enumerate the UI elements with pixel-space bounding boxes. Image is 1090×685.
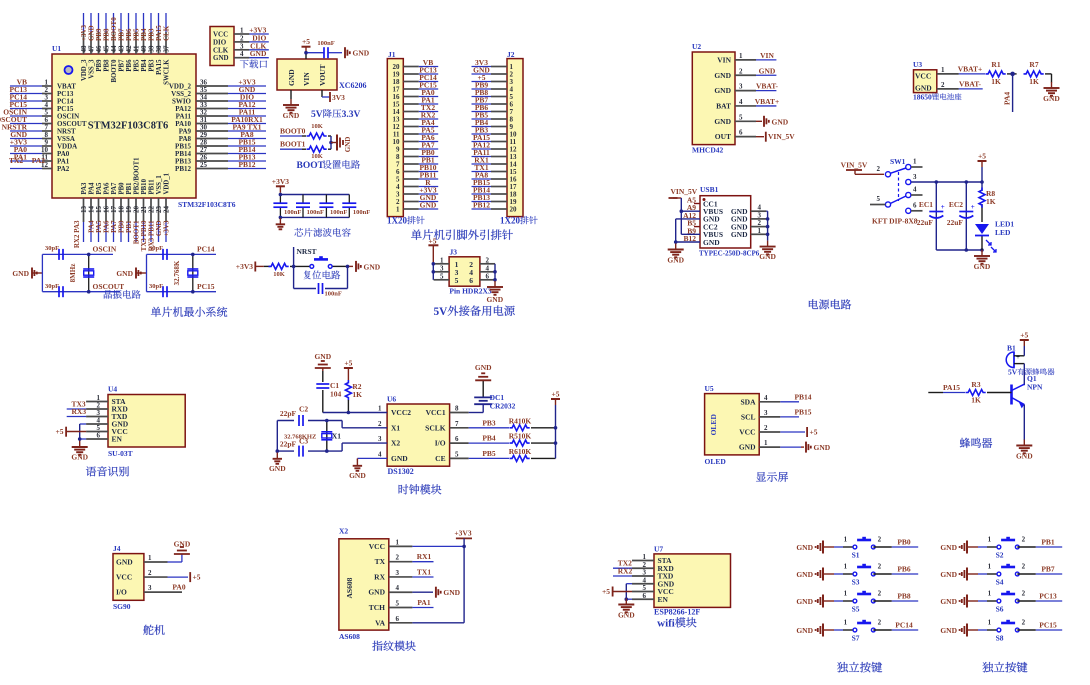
svg-text:2: 2 <box>878 563 882 571</box>
svg-text:1: 1 <box>739 52 743 60</box>
svg-text:PB0: PB0 <box>897 538 911 547</box>
wire: BOOT0 resistor to junction <box>328 135 331 137</box>
svg-text:VIN_5V: VIN_5V <box>841 161 868 170</box>
J2 pins 1-20 stubs, numbers and net labels <box>472 58 518 214</box>
svg-text:5V: 5V <box>434 306 449 318</box>
svg-text:+5: +5 <box>428 237 436 246</box>
svg-text:6: 6 <box>913 202 917 210</box>
U5 pins 4-1 stubs numbers names <box>739 394 780 452</box>
svg-text:S5: S5 <box>852 605 860 614</box>
ground flag right of reset button <box>355 261 357 272</box>
svg-text:2: 2 <box>1022 536 1026 544</box>
svg-text:GND: GND <box>940 543 957 552</box>
junction dots filter rails <box>279 193 283 197</box>
wire: GND pin to flag <box>780 446 801 448</box>
ground flag for button S4 <box>966 568 968 581</box>
junction dots left crystal <box>87 253 91 257</box>
title dianyuan dianlu (power circuit) <box>809 299 818 309</box>
svg-text:PA15: PA15 <box>156 59 163 75</box>
svg-text:C2: C2 <box>299 405 308 414</box>
svg-text:STM32F103C8T6: STM32F103C8T6 <box>178 200 236 209</box>
wire: R2 to VCC2 rail <box>347 374 349 380</box>
capacitor C4 100nF <box>273 202 287 204</box>
svg-text:RX2: RX2 <box>618 567 633 576</box>
svg-text:PB1: PB1 <box>1041 538 1055 547</box>
svg-text:J3: J3 <box>450 248 458 257</box>
svg-text:PC15: PC15 <box>197 282 215 291</box>
svg-text:4: 4 <box>486 264 490 272</box>
junction dots cap rail <box>935 180 939 184</box>
svg-text:GND: GND <box>420 201 437 210</box>
svg-text:PC15: PC15 <box>1039 621 1057 630</box>
svg-text:CR2032: CR2032 <box>490 402 516 411</box>
svg-text:4: 4 <box>739 98 743 106</box>
svg-text:+5: +5 <box>551 390 559 399</box>
svg-text:R7: R7 <box>1029 60 1038 69</box>
wire: USB1 left GND pins to ground <box>676 219 700 244</box>
capacitor 100nF at regulator input <box>323 47 325 58</box>
svg-text:PB3: PB3 <box>482 418 496 427</box>
svg-text:104: 104 <box>330 390 342 399</box>
svg-text:VCC: VCC <box>116 573 132 582</box>
svg-text:2: 2 <box>1022 619 1026 627</box>
svg-text:2: 2 <box>878 536 882 544</box>
USB1 right pin names GND x4 and numbers 4-1 <box>731 204 766 239</box>
svg-text:1: 1 <box>440 256 444 264</box>
svg-text:BOOT1: BOOT1 <box>280 140 306 149</box>
svg-text:PB14: PB14 <box>794 392 811 401</box>
svg-text:+5: +5 <box>193 573 201 582</box>
svg-text:8MHz: 8MHz <box>69 264 77 283</box>
svg-text:RX2 PA3: RX2 PA3 <box>73 220 81 248</box>
svg-text:GND: GND <box>116 269 133 278</box>
svg-text:S4: S4 <box>996 578 1004 587</box>
title duoji (servo) <box>143 625 153 635</box>
svg-text:32.768K: 32.768K <box>173 260 181 285</box>
svg-text:B1: B1 <box>1007 344 1016 353</box>
svg-text:3: 3 <box>764 409 768 417</box>
ground symbol right of R7 <box>1051 82 1053 88</box>
ground flag for button S6 <box>966 595 968 608</box>
svg-text:VDD_1: VDD_1 <box>164 172 171 194</box>
svg-text:VCC2: VCC2 <box>391 408 411 417</box>
svg-text:100nF: 100nF <box>330 209 347 216</box>
capacitor 30pF top-left <box>58 249 60 260</box>
ground flag for button S3 <box>822 568 824 581</box>
ground flag for button S2 <box>966 541 968 554</box>
svg-text:22pF: 22pF <box>280 440 297 449</box>
junction dot BOOT divider <box>329 141 333 145</box>
svg-text:GND: GND <box>714 71 731 80</box>
svg-text:GND: GND <box>974 262 991 271</box>
wire: GND to C1 to VCC2 rail <box>323 371 387 413</box>
svg-text:4: 4 <box>764 394 768 402</box>
svg-text:6: 6 <box>396 615 400 623</box>
svg-text:PB8: PB8 <box>897 592 911 601</box>
svg-text:GND: GND <box>940 597 957 606</box>
diode LED1 <box>975 224 989 234</box>
svg-text:GND: GND <box>1016 452 1033 461</box>
wire: button S3 to net label PB6 <box>873 573 892 575</box>
U4 pins 1-6 stubs numbers names <box>86 394 129 444</box>
svg-text:VA: VA <box>375 618 385 627</box>
svg-text:37: 37 <box>163 45 171 53</box>
svg-text:30pF: 30pF <box>45 283 59 290</box>
wire: U2 pin5 to ground flag <box>756 120 762 122</box>
junction dot left GND rail <box>674 240 678 244</box>
power +5 above buzzer <box>1023 340 1025 346</box>
svg-text:8: 8 <box>455 405 459 413</box>
power +5 above pull-up rail <box>555 399 557 405</box>
svg-text:1: 1 <box>844 590 848 598</box>
svg-text:CLK: CLK <box>213 46 229 54</box>
svg-text:100nF: 100nF <box>284 209 301 216</box>
title danpianji zuixiao xitong (MCU minimal system) <box>151 307 161 317</box>
push button S6 <box>997 599 1001 603</box>
svg-text:PA1: PA1 <box>417 598 430 607</box>
svg-text:BOOT0: BOOT0 <box>111 59 118 83</box>
svg-text:VCC1: VCC1 <box>426 408 446 417</box>
svg-text:U4: U4 <box>108 385 117 394</box>
svg-text:1K: 1K <box>1029 77 1039 86</box>
chip U1 STM32F103C8T6 body <box>52 54 196 198</box>
svg-text:PB12: PB12 <box>175 165 191 173</box>
svg-text:2: 2 <box>1022 563 1026 571</box>
svg-text:1K: 1K <box>991 77 1001 86</box>
svg-text:PB12: PB12 <box>238 160 255 169</box>
ground symbol below filter caps <box>279 218 281 224</box>
svg-text:32.768KHZ: 32.768KHZ <box>284 434 316 441</box>
wire: right crystal GND net <box>136 254 216 291</box>
wire: ground to button S4 <box>967 573 978 575</box>
wire: U2 pin6 to VIN_5V <box>756 136 764 138</box>
junction dots right crystal <box>191 253 195 257</box>
title duli anjian right (independent buttons) <box>982 662 993 672</box>
svg-text:XC6206: XC6206 <box>339 81 367 90</box>
svg-text:+5: +5 <box>302 37 310 46</box>
ground flag right crystal <box>135 268 137 279</box>
U1 top pins 48-37 with stubs, numbers, names and net labels <box>80 13 171 85</box>
svg-text:GND: GND <box>739 443 756 452</box>
wire: button S4 to net label PB7 <box>1017 573 1036 575</box>
svg-text:3: 3 <box>396 569 400 577</box>
svg-text:GND: GND <box>714 86 731 95</box>
svg-text:TX1: TX1 <box>417 568 431 577</box>
J3 inside pin numbers 1-6 <box>455 260 474 285</box>
svg-text:PB15: PB15 <box>794 407 811 416</box>
svg-text:GND: GND <box>12 269 29 278</box>
svg-text:3: 3 <box>739 83 743 91</box>
title fuwei dianlu (reset circuit) <box>304 271 311 280</box>
ground flag for button S5 <box>822 595 824 608</box>
power +3V3 symbol above filter caps <box>279 186 281 192</box>
svg-text:2: 2 <box>1022 590 1026 598</box>
svg-text:GND: GND <box>344 137 352 153</box>
svg-text:VDD_3: VDD_3 <box>81 59 88 81</box>
resistor R2 1K vertical <box>345 380 351 400</box>
svg-text:5V: 5V <box>1008 368 1018 377</box>
svg-text:6: 6 <box>455 435 459 443</box>
svg-text:30pF: 30pF <box>45 245 59 252</box>
svg-text:GND: GND <box>915 84 932 93</box>
svg-text:25: 25 <box>200 161 208 169</box>
power +5 inline at J4 <box>189 572 191 582</box>
svg-text:NRST: NRST <box>297 247 317 256</box>
junction dots reset node <box>292 265 296 269</box>
resistor R3 1K <box>966 390 986 396</box>
svg-text:1: 1 <box>988 536 992 544</box>
ground flag at X2 GND <box>435 587 437 598</box>
svg-text:PB8: PB8 <box>104 59 111 72</box>
svg-text:VCC: VCC <box>369 542 385 551</box>
push button S8 <box>997 628 1001 632</box>
svg-text:+: + <box>941 203 945 211</box>
node TX1 label at X2 RX <box>412 576 433 578</box>
svg-text:OLED: OLED <box>709 414 718 436</box>
svg-text:GND: GND <box>486 295 503 304</box>
SW1 pin number labels <box>877 158 918 210</box>
svg-text:SG90: SG90 <box>113 602 131 611</box>
wire: ground to button S6 <box>967 600 978 602</box>
svg-text:PB3: PB3 <box>149 59 156 72</box>
svg-text:+3V3: +3V3 <box>272 177 289 186</box>
capacitor EC1 22uF electrolytic <box>929 211 943 213</box>
capacitor 30pF top-right <box>162 249 164 260</box>
J4 pins 1-3 stubs numbers names <box>116 554 168 597</box>
ground symbol below USB1 left <box>675 244 677 250</box>
resistor R10 10K BOOT1 <box>307 146 327 152</box>
svg-text:VCC: VCC <box>739 428 755 437</box>
svg-text:+3V3: +3V3 <box>236 262 253 271</box>
title zhiwen mokuai (fingerprint module) <box>372 641 382 651</box>
wire: left crystal GND net <box>32 254 120 291</box>
wire: X2 GND to flag <box>412 591 433 593</box>
svg-text:GND: GND <box>796 543 813 552</box>
push button S9 reset <box>310 265 314 269</box>
svg-text:PA3: PA3 <box>81 182 88 195</box>
wire: J4 VCC to +5 <box>168 576 189 578</box>
svg-text:1: 1 <box>396 538 400 546</box>
wire: ground to button S5 <box>823 600 834 602</box>
svg-text:+5: +5 <box>55 427 63 436</box>
wire: VOUT to 3V3 label <box>322 90 330 97</box>
wire: +5 pull-up rail vertical <box>555 405 557 458</box>
wire: DC1 to U6 VCC1 <box>482 404 484 412</box>
svg-text:RX: RX <box>374 572 385 581</box>
U3 pin 2 stub and VBAT- label <box>937 88 959 90</box>
svg-text:VIN: VIN <box>302 72 311 86</box>
wire: U7 GND and EN to ground <box>626 584 632 600</box>
svg-text:GND: GND <box>814 443 831 452</box>
svg-text:VIN: VIN <box>717 55 731 64</box>
svg-text:S3: S3 <box>852 578 860 587</box>
svg-text:5: 5 <box>739 113 743 121</box>
svg-text:6: 6 <box>739 129 743 137</box>
svg-text:GND: GND <box>314 352 331 361</box>
svg-text:3: 3 <box>240 42 244 50</box>
svg-text:VIN_5V: VIN_5V <box>671 187 698 196</box>
wire: regulator GND pin down <box>290 90 292 99</box>
svg-text:BOOT0: BOOT0 <box>280 127 306 136</box>
wire: PA15 to R3 <box>928 392 943 394</box>
svg-text:GND: GND <box>116 558 133 567</box>
svg-text:2: 2 <box>878 590 882 598</box>
svg-text:SDA: SDA <box>740 397 756 406</box>
svg-text:10K: 10K <box>311 153 323 160</box>
wire: buzzer pins to +5 and collector <box>1014 346 1024 385</box>
svg-text:PB5: PB5 <box>134 59 141 72</box>
wire: SCL to PB15 <box>780 416 799 418</box>
power VIN_5V label at U2 pin6 <box>765 132 767 142</box>
U1 right pins 36-25 with stubs, numbers, names and net labels <box>169 78 266 174</box>
svg-text:PB5: PB5 <box>482 449 496 458</box>
svg-text:2: 2 <box>148 569 152 577</box>
svg-text:DS1302: DS1302 <box>388 467 414 476</box>
svg-text:TCH: TCH <box>369 603 385 612</box>
svg-text:GND: GND <box>353 49 370 58</box>
svg-text:22pF: 22pF <box>280 409 297 418</box>
ground symbol below U6 GND <box>356 460 358 466</box>
svg-text:1: 1 <box>378 405 382 413</box>
svg-text:SCL: SCL <box>741 412 756 421</box>
wire: R6 to +5 rail <box>531 457 556 459</box>
capacitor C8 100nF reset <box>318 283 320 294</box>
wire: emitter to GND <box>1023 405 1025 441</box>
ground symbol below USB1 right <box>767 241 769 247</box>
svg-text:TYPEC-250D-8CP6: TYPEC-250D-8CP6 <box>699 250 760 258</box>
svg-text:6: 6 <box>486 272 490 280</box>
push button S7 <box>853 628 857 632</box>
USB1 left pin names and pad numbers <box>683 196 723 247</box>
svg-text:3V3: 3V3 <box>332 93 345 102</box>
svg-text:2: 2 <box>739 67 743 75</box>
svg-text:ESP8266-12F: ESP8266-12F <box>654 608 700 617</box>
svg-text:22uF: 22uF <box>917 218 934 227</box>
wire: ground to button S2 <box>967 546 978 548</box>
ground symbol below J3 <box>494 281 496 287</box>
svg-text:MHCD42: MHCD42 <box>692 146 723 155</box>
wire: +5 node to cap and GND flag <box>306 53 342 59</box>
svg-text:3: 3 <box>148 584 152 592</box>
svg-text:GND: GND <box>213 54 229 62</box>
svg-text:SWCLK: SWCLK <box>164 59 171 85</box>
svg-text:20: 20 <box>510 206 518 214</box>
wire: J4 I/O to PA0 <box>168 591 183 593</box>
svg-text:PC14: PC14 <box>197 245 215 254</box>
resistor R6 10K <box>510 455 530 461</box>
push button S2 <box>997 545 1001 549</box>
ground flag right of input cap <box>344 47 346 58</box>
svg-text:I/O: I/O <box>116 588 127 597</box>
svg-text:VSS_1: VSS_1 <box>156 175 163 195</box>
U7 pins 1-6 stubs numbers names <box>632 553 675 604</box>
svg-text:PB0: PB0 <box>119 182 126 195</box>
power +5 above R2 <box>347 368 349 374</box>
svg-text:5: 5 <box>455 450 459 458</box>
wire: button S8 to net label PC15 <box>1017 629 1036 631</box>
svg-text:R610K: R610K <box>509 447 532 456</box>
svg-text:GND: GND <box>283 111 300 120</box>
wire: button S7 to net label PC14 <box>873 629 892 631</box>
svg-text:GND: GND <box>250 49 267 58</box>
svg-text:7: 7 <box>455 420 459 428</box>
svg-text:TX2: TX2 <box>9 156 23 165</box>
wire: BOOT1 to resistor <box>280 148 302 150</box>
svg-text:+: + <box>1016 353 1020 361</box>
svg-text:5: 5 <box>455 276 459 285</box>
junction dots right GND rail <box>766 217 770 221</box>
transistor Q1 NPN <box>1012 384 1025 408</box>
wire: junction to GND flag <box>331 142 337 144</box>
resistor R11 10K reset pull-up <box>269 263 289 269</box>
svg-text:PA0: PA0 <box>172 583 185 592</box>
push button S4 <box>997 572 1001 576</box>
svg-text:6: 6 <box>469 276 473 285</box>
resistor R8 1K vertical <box>979 188 985 208</box>
push button S5 <box>853 599 857 603</box>
svg-text:+5: +5 <box>1020 331 1028 340</box>
svg-text:EN: EN <box>112 435 123 444</box>
svg-text:EN: EN <box>658 595 669 604</box>
capacitor C2 22pF <box>298 415 300 426</box>
node RX1 label at X2 TX <box>412 561 433 563</box>
svg-text:1: 1 <box>988 590 992 598</box>
wire: VCC to +5 <box>780 431 805 433</box>
svg-text:S2: S2 <box>996 551 1004 560</box>
svg-text:LED: LED <box>995 228 1011 237</box>
title shizhong mokuai (clock module) <box>399 484 409 494</box>
U2 pins 1-6 stubs, numbers, names and net labels <box>714 51 779 141</box>
wire: USB1 right GND pins rail <box>766 211 767 240</box>
svg-text:GND: GND <box>667 256 684 265</box>
wire: +5 down through R8 LED to GND <box>981 167 983 250</box>
ground flag for button S7 <box>822 624 824 637</box>
junction dots J3 right rail <box>493 270 497 274</box>
X2 pins 1-6 stubs numbers names <box>368 538 412 627</box>
svg-text:NPN: NPN <box>1027 383 1043 392</box>
wire: VBAT+ to R1 <box>959 73 985 75</box>
ground symbol below LED <box>981 250 983 256</box>
svg-text:1X20: 1X20 <box>387 216 407 226</box>
crystal Y2 32.768K <box>187 268 198 270</box>
capacitor 30pF bottom-right <box>162 286 164 297</box>
U6 left pin names and numbers <box>378 405 411 463</box>
svg-text:5: 5 <box>396 600 400 608</box>
svg-text:U6: U6 <box>387 395 396 404</box>
capacitor C1 104 <box>316 383 329 385</box>
power +5 inline at U5 <box>806 427 808 437</box>
svg-text:6: 6 <box>643 592 647 600</box>
junction dot +3V3 VCC <box>462 545 466 549</box>
push button S3 <box>853 572 857 576</box>
wire: BOOT0 to resistor <box>280 135 302 137</box>
svg-text:U3: U3 <box>913 60 922 69</box>
svg-text:5V: 5V <box>311 110 323 120</box>
svg-text:GND: GND <box>1043 94 1060 103</box>
SW1 stub pins <box>870 167 923 211</box>
capacitor C7 100nF <box>342 202 356 204</box>
capacitor C3 22pF <box>298 446 300 457</box>
svg-text:CLK: CLK <box>163 25 171 41</box>
svg-text:1: 1 <box>844 619 848 627</box>
svg-text:10K: 10K <box>311 123 323 130</box>
svg-text:24: 24 <box>163 206 171 214</box>
U3 pin 1 stub and VBAT+ label <box>937 73 959 75</box>
title xinpian lvbo dianrong (chip filter caps) <box>294 228 303 236</box>
svg-text:PB4: PB4 <box>141 59 148 72</box>
wire: filter cap rails <box>280 192 349 218</box>
svg-text:GND: GND <box>759 66 776 75</box>
